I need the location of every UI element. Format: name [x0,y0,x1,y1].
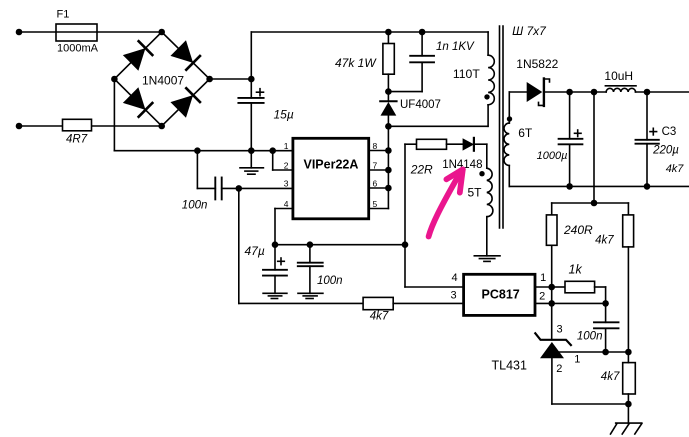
svg-text:3: 3 [284,179,289,189]
svg-text:100n: 100n [317,275,343,287]
svg-text:4: 4 [284,199,289,209]
svg-text:2: 2 [556,363,562,375]
svg-text:240R: 240R [563,223,593,237]
svg-text:1N5822: 1N5822 [516,57,558,71]
svg-text:47µ: 47µ [245,244,265,258]
svg-text:Ш 7x7: Ш 7x7 [512,24,547,38]
svg-text:1000mA: 1000mA [57,43,99,55]
svg-text:5T: 5T [468,186,483,200]
svg-text:1: 1 [540,272,546,284]
svg-text:1: 1 [284,141,289,151]
svg-text:4k7: 4k7 [595,235,614,247]
svg-text:8: 8 [373,141,378,151]
svg-text:4k7: 4k7 [370,311,389,323]
svg-text:3: 3 [557,324,563,336]
svg-text:15µ: 15µ [274,108,294,122]
svg-text:F1: F1 [57,9,70,21]
svg-text:6T: 6T [518,126,533,140]
svg-text:C3: C3 [662,126,677,138]
svg-text:4k7: 4k7 [601,371,620,383]
svg-text:1N4007: 1N4007 [142,74,184,88]
svg-text:VIPer22A: VIPer22A [304,158,359,172]
svg-text:1000µ: 1000µ [537,150,568,162]
svg-text:PC817: PC817 [482,287,520,301]
svg-text:100n: 100n [577,331,603,343]
svg-text:22R: 22R [410,162,433,176]
svg-text:1n 1KV: 1n 1KV [436,41,475,53]
svg-text:5: 5 [373,199,378,209]
svg-text:1: 1 [574,354,580,366]
svg-text:4: 4 [452,272,458,284]
svg-text:7: 7 [373,161,378,171]
svg-text:UF4007: UF4007 [400,99,441,111]
svg-text:2: 2 [284,161,289,171]
svg-text:47k 1W: 47k 1W [335,56,377,70]
svg-text:10uH: 10uH [604,69,633,83]
svg-text:2: 2 [539,290,545,302]
svg-text:220µ: 220µ [652,145,679,157]
svg-text:100n: 100n [182,200,208,212]
svg-text:TL431: TL431 [492,359,527,373]
svg-text:4R7: 4R7 [66,134,88,146]
svg-text:4k7: 4k7 [666,163,685,175]
svg-text:110T: 110T [453,67,480,81]
svg-text:3: 3 [451,289,457,301]
svg-text:1k: 1k [569,262,583,276]
svg-text:6: 6 [373,179,378,189]
